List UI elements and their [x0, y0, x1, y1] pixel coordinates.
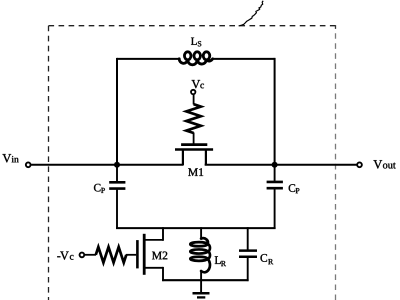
inductor LS [179, 52, 212, 65]
junction dot left [114, 162, 120, 168]
label M1 [188, 168, 203, 176]
label LS [191, 38, 201, 47]
label CR [260, 254, 273, 264]
dashed enclosure box [49, 25, 336, 300]
wire: LR to ground rail [200, 271, 202, 293]
terminal Vc [191, 90, 195, 94]
capacitor CR [239, 251, 257, 282]
wire: tank top rail [116, 227, 276, 229]
label M2 [152, 252, 167, 260]
label Vc [192, 80, 204, 88]
terminal Vout [357, 162, 362, 167]
ground [193, 293, 210, 297]
wire: tank rail to LR [200, 227, 202, 239]
capacitor CP left [109, 163, 125, 229]
wire: tank rail to CR [247, 227, 249, 250]
wire: top rail right segment [212, 58, 274, 60]
capacitor CP right [267, 163, 283, 229]
resistor R2 (M2 gate) [96, 247, 127, 263]
wire: top rail left segment [117, 58, 180, 60]
wire: resistor to M2 gate [126, 254, 136, 256]
label CP left [94, 184, 105, 193]
wire: left vertical riser [116, 58, 118, 165]
callout squiggle [239, 1, 264, 26]
wire: bottom rail (M2 source to CR) [162, 279, 249, 281]
wire: M1 drain to output [205, 164, 358, 166]
label Vout [373, 160, 395, 168]
label CP right [289, 184, 300, 193]
junction dot right [272, 162, 278, 168]
wire: input to M1 source [31, 164, 183, 166]
transistor M2 [137, 227, 163, 281]
label LR [215, 256, 226, 266]
wire: right vertical riser [274, 58, 276, 165]
transistor M1 [175, 145, 213, 166]
terminal -Vc [80, 253, 85, 258]
wire: resistor to M1 gate [193, 133, 195, 144]
label Vin [2, 154, 18, 162]
resistor R1 (gate bias) [186, 104, 201, 133]
terminal Vin [26, 162, 31, 167]
wire: -Vc to resistor [85, 254, 96, 256]
wire: Vc to resistor [193, 94, 195, 104]
label -Vc [57, 252, 73, 260]
inductor LR [190, 238, 210, 272]
